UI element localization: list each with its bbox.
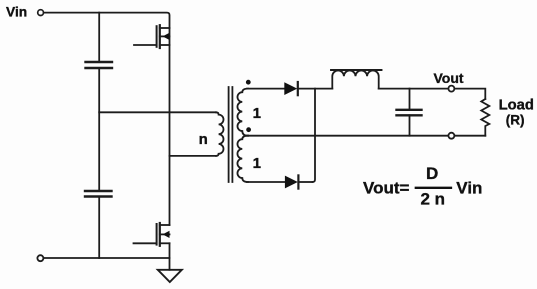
bottom-left terminal xyxy=(37,255,43,261)
Q1 channel bar xyxy=(159,25,161,48)
transformer secondary winding bottom (1) xyxy=(237,136,248,182)
terminal bottom output xyxy=(448,133,454,139)
formula Vout = D/(2n) Vin xyxy=(363,164,482,209)
wire top rail inductor to Vout terminal xyxy=(379,88,449,90)
transformer T1 primary winding n xyxy=(216,112,224,156)
Q2 gate lead xyxy=(134,242,157,244)
svg-text:1: 1 xyxy=(253,105,261,122)
ground xyxy=(158,270,182,282)
resistor load R xyxy=(481,99,489,136)
wire primary bottom lead (center vertical to primary) xyxy=(170,155,217,157)
wire top rail from Vin terminal to Q1 drain corner xyxy=(44,13,170,28)
terminal Vout xyxy=(448,86,454,92)
wire diode join vertical xyxy=(313,89,316,182)
svg-text:2 n: 2 n xyxy=(421,190,446,209)
capacitor C1 xyxy=(86,62,113,68)
svg-text:n: n xyxy=(199,131,208,148)
Q1 source stub xyxy=(160,44,170,46)
inductor core bar xyxy=(331,69,382,71)
svg-text:Vout: Vout xyxy=(434,70,464,86)
Q1 body stub with arrow xyxy=(160,35,170,37)
svg-text:=: = xyxy=(400,179,410,198)
Q1 gate bar xyxy=(156,26,158,47)
wire left branch vertical middle xyxy=(98,68,100,191)
transformer secondary winding top (1) xyxy=(237,89,248,136)
wire top rail secondary to diode D1 xyxy=(247,88,284,90)
capacitor Cout lead bottom xyxy=(409,115,411,135)
svg-text:Load: Load xyxy=(499,98,534,114)
wire D2 cathode to join vertical xyxy=(298,181,312,183)
Q2 source stub xyxy=(160,242,170,244)
wire D1 cathode to inductor xyxy=(298,88,333,90)
diode D1 xyxy=(284,82,297,95)
svg-text:(R): (R) xyxy=(506,113,525,128)
transformer core xyxy=(229,87,233,182)
wire left branch vertical lower xyxy=(98,197,100,259)
wire bottom rail (center tap to load) xyxy=(247,135,448,137)
wire Q2 source to ground xyxy=(169,243,171,269)
input terminal (Vin) xyxy=(38,10,44,16)
Q2 gate bar xyxy=(156,224,158,245)
Q2 channel bar xyxy=(159,223,161,246)
wire Vout terminal to load corner xyxy=(455,89,486,99)
capacitor Cout xyxy=(397,110,422,116)
svg-text:Vin: Vin xyxy=(456,179,482,198)
diode D2 xyxy=(285,176,298,189)
wire left branch vertical upper xyxy=(98,13,100,62)
Q2 body stub with arrow xyxy=(160,233,170,235)
wire bottom diode lead xyxy=(247,181,285,183)
inductor L1 xyxy=(332,71,378,89)
svg-text:D: D xyxy=(426,164,438,183)
transistor Q2 (bottom MOSFET) xyxy=(134,223,170,246)
svg-text:1: 1 xyxy=(253,155,261,172)
svg-text:Vin: Vin xyxy=(6,5,27,20)
capacitor C2 xyxy=(85,191,112,197)
wire center vertical (Q1 source to Q2 drain through junctions) xyxy=(169,28,171,225)
wire bottom return xyxy=(44,257,170,259)
capacitor Cout lead top xyxy=(409,89,411,110)
wire bottom rail terminal to load xyxy=(455,135,486,137)
Q1 gate lead xyxy=(134,44,157,46)
Q1 drain stub xyxy=(160,27,170,29)
transistor Q1 (top MOSFET) xyxy=(134,25,170,48)
Q2 drain stub xyxy=(160,224,170,226)
svg-text:Vout: Vout xyxy=(363,179,400,198)
polarity dot center xyxy=(246,127,251,132)
wire primary top lead (cap midpoint to primary) xyxy=(99,111,216,113)
polarity dot top xyxy=(246,80,251,85)
